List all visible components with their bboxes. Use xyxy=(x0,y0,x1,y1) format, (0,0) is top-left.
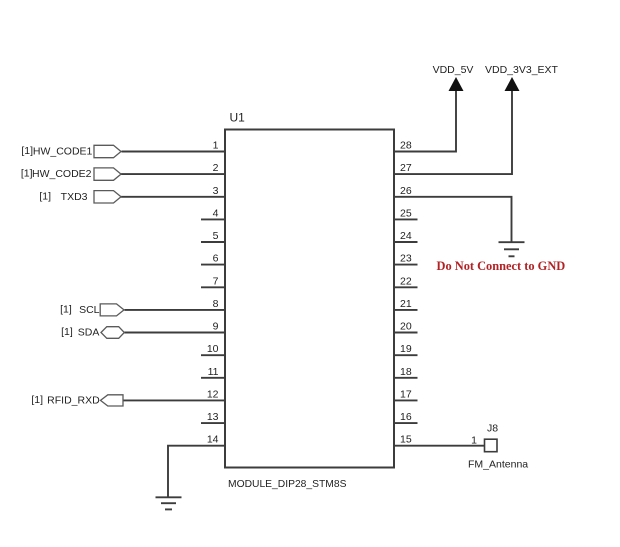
svg-text:1: 1 xyxy=(471,435,477,447)
svg-text:TXD3: TXD3 xyxy=(61,191,88,203)
svg-text:19: 19 xyxy=(400,343,412,355)
svg-text:[1]: [1] xyxy=(21,145,33,157)
svg-text:22: 22 xyxy=(400,275,412,287)
svg-text:VDD_5V: VDD_5V xyxy=(433,64,474,76)
svg-text:25: 25 xyxy=(400,207,412,219)
svg-text:24: 24 xyxy=(400,230,412,242)
svg-text:16: 16 xyxy=(400,411,412,423)
svg-text:26: 26 xyxy=(400,185,412,197)
svg-text:17: 17 xyxy=(400,388,412,400)
svg-text:5: 5 xyxy=(213,230,219,242)
svg-text:18: 18 xyxy=(400,366,412,378)
svg-text:2: 2 xyxy=(213,162,219,174)
svg-text:[1]: [1] xyxy=(39,190,51,202)
svg-text:28: 28 xyxy=(400,140,412,152)
svg-text:4: 4 xyxy=(213,207,219,219)
svg-text:RFID_RXD: RFID_RXD xyxy=(47,394,100,406)
svg-text:15: 15 xyxy=(400,434,412,446)
svg-text:Do Not Connect to GND: Do Not Connect to GND xyxy=(437,259,566,273)
svg-text:14: 14 xyxy=(207,434,219,446)
svg-text:12: 12 xyxy=(207,388,219,400)
svg-text:13: 13 xyxy=(207,411,219,423)
svg-text:23: 23 xyxy=(400,253,412,265)
svg-text:[1]: [1] xyxy=(31,394,43,406)
svg-text:7: 7 xyxy=(213,275,219,287)
svg-text:8: 8 xyxy=(213,298,219,310)
svg-text:MODULE_DIP28_STM8S: MODULE_DIP28_STM8S xyxy=(228,479,347,490)
svg-text:FM_Antenna: FM_Antenna xyxy=(468,459,528,471)
svg-text:10: 10 xyxy=(207,343,219,355)
svg-text:9: 9 xyxy=(213,321,219,333)
svg-text:11: 11 xyxy=(208,366,219,378)
svg-text:J8: J8 xyxy=(487,423,498,435)
svg-text:[1]: [1] xyxy=(60,303,72,315)
svg-text:27: 27 xyxy=(400,162,412,174)
svg-text:U1: U1 xyxy=(230,111,246,125)
svg-text:1: 1 xyxy=(213,140,219,152)
svg-text:HW_CODE2: HW_CODE2 xyxy=(32,168,92,180)
svg-text:20: 20 xyxy=(400,321,412,333)
svg-text:21: 21 xyxy=(400,298,412,310)
svg-text:SDA: SDA xyxy=(78,327,100,339)
svg-text:SCL: SCL xyxy=(79,304,100,316)
svg-text:HW_CODE1: HW_CODE1 xyxy=(33,146,93,158)
svg-text:[1]: [1] xyxy=(61,326,73,338)
svg-text:6: 6 xyxy=(213,253,219,265)
svg-text:VDD_3V3_EXT: VDD_3V3_EXT xyxy=(485,64,559,76)
svg-text:[1]: [1] xyxy=(21,168,33,180)
svg-text:3: 3 xyxy=(213,185,219,197)
